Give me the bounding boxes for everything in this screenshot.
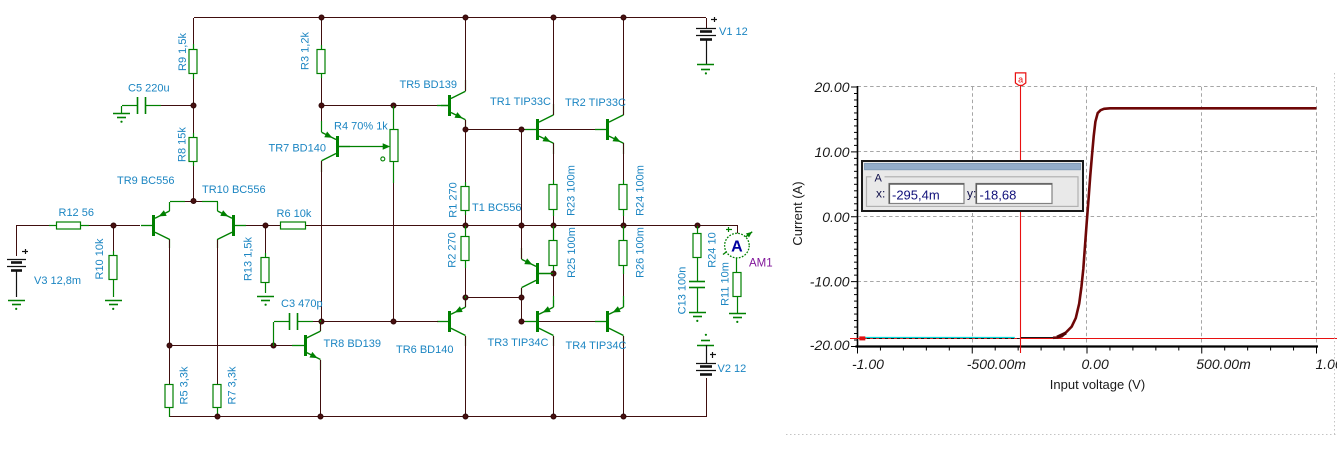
wire R25 to TR3 <box>553 274 555 300</box>
wire T1 emitter up <box>521 226 523 259</box>
window right border <box>1334 73 1336 434</box>
svg-text:10.00: 10.00 <box>814 144 849 160</box>
resistor R10 <box>109 251 117 297</box>
gridline x -0.5 <box>972 87 974 347</box>
junction T1 collector <box>519 295 524 300</box>
ground R11 <box>729 314 746 324</box>
grid right border <box>1316 87 1318 347</box>
transistor TR4 <box>595 296 624 346</box>
label TR10 <box>202 184 266 196</box>
mid rail left <box>16 225 49 227</box>
ground C13 <box>689 313 706 323</box>
y axis <box>857 86 859 348</box>
junction TR5 emitter <box>463 127 468 132</box>
xlabel -500.00m <box>967 356 1026 372</box>
svg-text:y:: y: <box>967 187 976 201</box>
wire TR1 collector <box>553 18 555 115</box>
resistor R5 <box>165 346 173 417</box>
resistor R8 <box>189 133 197 166</box>
junction R10 rail <box>111 223 116 228</box>
junction T1 base node <box>551 271 556 276</box>
junction T1 emitter rail <box>519 223 524 228</box>
label TR4 <box>566 340 627 352</box>
resistor R6 <box>281 222 306 229</box>
svg-text:T1 BC556: T1 BC556 <box>472 202 522 214</box>
svg-text:R9 1,5k: R9 1,5k <box>177 33 189 71</box>
ammeter AM1 <box>725 233 750 258</box>
wire TR2 emitter <box>623 143 625 180</box>
cursor readout box <box>862 161 1083 211</box>
label C13 <box>677 267 689 315</box>
plus V1 <box>711 17 717 22</box>
ylabel 0 <box>822 209 849 225</box>
junction TR3 base node <box>519 319 524 324</box>
svg-text:R7 3,3k: R7 3,3k <box>227 366 239 404</box>
resistor R25 <box>549 226 557 274</box>
capacitor C5 <box>122 97 195 114</box>
svg-text:A: A <box>731 239 743 256</box>
ground R10 <box>105 301 122 311</box>
wire TR8 emitter down <box>320 360 322 417</box>
junction TR4 bottom <box>621 414 626 419</box>
capacitor C3 <box>274 313 323 346</box>
base line TR3 TR4 <box>521 321 596 323</box>
svg-text:1.00: 1.00 <box>1316 356 1337 372</box>
label R8 <box>177 127 189 162</box>
transistor TR5 <box>437 80 466 131</box>
cursor flag a <box>1015 73 1025 86</box>
label R3 <box>300 32 312 70</box>
transistor TR2 <box>595 104 624 154</box>
gridline x 0 <box>1086 87 1088 347</box>
junction emitters <box>191 198 196 203</box>
resistor R23 <box>549 180 557 216</box>
junction R23 rail <box>551 223 556 228</box>
ground V2 inverted <box>697 334 714 346</box>
battery V2 <box>696 364 716 375</box>
svg-text:R13 1,5k: R13 1,5k <box>243 236 255 281</box>
wire TR5 base <box>441 105 448 107</box>
junction TR1 top rail <box>551 15 556 20</box>
label R10 <box>94 238 106 279</box>
label TR9 <box>117 175 174 187</box>
svg-text:TR7 BD140: TR7 BD140 <box>269 143 326 155</box>
top rail <box>194 17 706 19</box>
label TR2 <box>565 97 626 109</box>
transistor TR8 <box>292 320 321 370</box>
label R23 <box>566 165 578 216</box>
junction output node <box>695 223 700 228</box>
ammeter A letter <box>731 239 743 256</box>
svg-text:R12 56: R12 56 <box>59 207 94 219</box>
wire R13 drop <box>265 226 267 253</box>
wiper R4 <box>339 143 390 149</box>
svg-text:TR4 TIP34C: TR4 TIP34C <box>566 340 627 352</box>
junction R7 bottom <box>215 414 220 419</box>
cursor horizontal red <box>850 338 1337 340</box>
potentiometer R4 <box>390 106 398 183</box>
resistor R1 <box>461 182 469 215</box>
battery V1 <box>696 29 716 40</box>
ylabel 20 <box>813 79 849 95</box>
ground V1 <box>697 65 714 75</box>
wire TR10 collector down <box>217 240 219 385</box>
gridline y -10 <box>858 281 1317 283</box>
junction R3 top rail <box>319 15 324 20</box>
svg-text:R24 10: R24 10 <box>707 232 719 267</box>
svg-text:R3 1,2k: R3 1,2k <box>300 32 312 70</box>
svg-text:-20.00: -20.00 <box>810 337 850 353</box>
svg-text:-295,4m: -295,4m <box>892 188 940 203</box>
junction TR9 coll node <box>167 343 172 348</box>
junction R1-R2 rail <box>463 223 468 228</box>
wire TR5 collector up <box>465 18 467 91</box>
svg-text:-10.00: -10.00 <box>810 274 850 290</box>
cursor vertical red <box>1020 86 1022 354</box>
wire TR10 base to R13 node <box>246 225 280 227</box>
label TR7 <box>269 143 326 155</box>
label R13 <box>243 236 255 281</box>
wire y321 mid <box>322 321 438 323</box>
label R24 <box>635 165 647 216</box>
svg-text:TR1 TIP33C: TR1 TIP33C <box>490 96 551 108</box>
wire V3 stem <box>16 226 18 256</box>
svg-text:0.00: 0.00 <box>1082 356 1109 372</box>
label R4 <box>334 121 388 133</box>
junction R24 rail <box>621 223 626 228</box>
label T1 <box>472 202 522 214</box>
wire TR10 emitter path <box>194 201 218 203</box>
wire T1 base <box>538 273 553 275</box>
transistor TR10 <box>218 202 247 248</box>
wire TR4 collector down <box>623 336 625 417</box>
svg-text:TR9 BC556: TR9 BC556 <box>117 175 174 187</box>
x axis title <box>1050 377 1145 392</box>
svg-text:x:: x: <box>876 187 885 201</box>
svg-text:C13 100n: C13 100n <box>677 267 689 315</box>
resistor R7 <box>213 385 221 418</box>
wire R3 bottom <box>321 78 323 106</box>
svg-text:TR2 TIP33C: TR2 TIP33C <box>565 97 626 109</box>
junction TR5 top rail <box>463 15 468 20</box>
ammeter AM1 needle <box>723 232 752 255</box>
wire TR1 emitter <box>553 143 555 180</box>
resistor R2 <box>461 226 469 268</box>
junction R4 top <box>391 103 396 108</box>
wire R8 to emitters node <box>193 166 195 201</box>
resistor R26 <box>619 226 627 274</box>
transistor TR3 <box>525 296 554 346</box>
mid rail right of R6 <box>305 225 738 227</box>
ylabel 10 <box>814 144 849 160</box>
x axis <box>856 345 1319 347</box>
wire TR5 emitter down <box>465 120 467 130</box>
ylabel -20 <box>810 337 850 353</box>
wire R1 top <box>465 130 467 182</box>
wire TR3 collector down <box>553 336 555 417</box>
svg-text:R6 10k: R6 10k <box>277 208 312 220</box>
wire R4 bottom <box>393 183 395 321</box>
resistor R11 <box>733 258 741 313</box>
label V2 <box>718 363 747 375</box>
plus AM1 <box>726 227 732 232</box>
wire R3 top <box>321 18 323 45</box>
resistor R12 <box>49 222 89 229</box>
wire TR3 emitter up <box>553 300 555 307</box>
resistor R3 <box>317 45 325 78</box>
xlabel 0.00 <box>1082 356 1109 372</box>
resistor R24 <box>619 180 627 216</box>
y ticks <box>851 87 858 347</box>
base line TR1 TR2 <box>465 129 595 131</box>
transistor T1 <box>522 248 551 299</box>
curve black dashed <box>861 338 1020 340</box>
curve knee blob <box>1057 333 1066 337</box>
label R5 <box>179 366 191 404</box>
label R7 <box>227 366 239 404</box>
svg-text:R10 10k: R10 10k <box>94 238 106 279</box>
svg-text:C3 470p: C3 470p <box>281 298 323 310</box>
transistor TR7 <box>322 121 351 172</box>
ground C5 <box>113 114 130 123</box>
wire R26 to TR4 <box>623 274 625 300</box>
label R9 <box>177 33 189 71</box>
transistor TR1 <box>525 104 554 154</box>
label R1 <box>448 182 460 217</box>
label C5 <box>128 83 170 95</box>
label V3 <box>34 275 81 287</box>
label TR6 <box>396 344 453 356</box>
y axis title <box>790 181 805 245</box>
svg-text:TR5 BD139: TR5 BD139 <box>400 79 457 91</box>
wire R12 to TR9 base <box>89 225 140 227</box>
label R12 <box>59 207 94 219</box>
plus V2 <box>710 352 716 358</box>
pot circle R4 <box>381 157 385 161</box>
wire TR7 collector down <box>321 161 323 321</box>
wire TR4 emitter up <box>623 300 625 307</box>
xlabel 1.00 <box>1316 356 1337 372</box>
wire TR7 emitter drop <box>321 106 323 130</box>
svg-text:-18,68: -18,68 <box>980 188 1017 203</box>
label AM1 <box>749 258 773 270</box>
wire TR2 collector <box>623 18 625 115</box>
svg-text:R23 100m: R23 100m <box>566 165 578 216</box>
wire R1 bottom <box>465 215 467 226</box>
wire R24 bottom <box>623 216 625 226</box>
svg-text:20.00: 20.00 <box>813 79 849 95</box>
svg-text:TR10 BC556: TR10 BC556 <box>202 184 266 196</box>
wire V3 bottom <box>16 270 18 297</box>
resistor R13 <box>261 253 269 293</box>
gridline x 0.5 <box>1201 87 1203 347</box>
resistor R24b <box>693 226 701 281</box>
svg-text:R11 10m: R11 10m <box>720 262 732 306</box>
junction C5-R8 <box>191 103 196 108</box>
ground R13 <box>257 297 274 306</box>
node row y105 <box>322 105 441 107</box>
svg-text:R5 3,3k: R5 3,3k <box>179 366 191 404</box>
wire T1 riser <box>521 130 523 226</box>
plus V3 <box>22 249 28 254</box>
svg-text:a: a <box>1018 75 1023 85</box>
curve cyan segment <box>861 337 1015 339</box>
battery V3 <box>7 260 26 271</box>
junction C3 drop <box>271 343 276 348</box>
svg-text:C5 220u: C5 220u <box>128 83 170 95</box>
gridline y 0 <box>858 216 1317 218</box>
label V1 <box>719 26 748 38</box>
svg-text:A: A <box>875 173 883 185</box>
svg-text:-500.00m: -500.00m <box>967 356 1026 372</box>
wire TR6 collector down <box>465 336 467 417</box>
wire R2 bottom <box>465 268 467 297</box>
svg-text:R8 15k: R8 15k <box>177 127 189 162</box>
wire R2 node to T1 <box>465 297 521 299</box>
transistor TR6 <box>437 296 466 346</box>
svg-text:V2 12: V2 12 <box>718 363 747 375</box>
label R11 <box>720 262 732 306</box>
grid top border <box>858 86 1317 88</box>
wire TR9 collector down <box>169 240 171 345</box>
junction T1 riser <box>519 127 524 132</box>
svg-text:AM1: AM1 <box>749 258 773 270</box>
label R24b <box>707 232 719 267</box>
svg-text:R25 100m: R25 100m <box>566 227 578 278</box>
wire V2 riser <box>706 378 708 417</box>
label R6 <box>277 208 312 220</box>
label C3 <box>281 298 323 310</box>
junction R13 node <box>263 223 268 228</box>
svg-text:Input voltage (V): Input voltage (V) <box>1050 377 1145 392</box>
junction R3-TR7 <box>319 103 324 108</box>
wire TR9 emitter path <box>170 201 194 203</box>
label TR8 <box>324 338 381 350</box>
wire R23 bottom <box>553 216 555 226</box>
svg-text:-1.00: -1.00 <box>852 356 884 372</box>
wire V1 to ground <box>706 39 708 65</box>
xlabel 500.00m <box>1196 356 1251 372</box>
resistor R9 <box>189 44 197 79</box>
label R26 <box>635 227 647 278</box>
wire T1 col drop <box>521 298 523 321</box>
svg-text:TR3 TIP34C: TR3 TIP34C <box>488 337 549 349</box>
label TR3 <box>488 337 549 349</box>
svg-text:R4 70% 1k: R4 70% 1k <box>334 121 388 133</box>
bottom rail <box>169 416 706 418</box>
wire AM1 drop <box>737 226 739 234</box>
ylabel -10 <box>810 274 850 290</box>
wire V1 drop <box>706 18 708 28</box>
wire V2 top stem <box>706 345 708 363</box>
x ticks <box>858 347 1317 354</box>
svg-text:Current (A): Current (A) <box>790 181 805 245</box>
window bottom border <box>786 434 1337 436</box>
wire R9-C5 node <box>193 79 195 133</box>
junction TR2 top rail <box>621 15 626 20</box>
wire R10 drop <box>113 226 115 251</box>
junction TR8 bottom <box>318 414 323 419</box>
wire T1 collector down <box>521 288 523 298</box>
junction R4-bottom node <box>391 319 396 324</box>
curve black solid <box>1021 337 1056 339</box>
transistor TR9 <box>141 202 170 248</box>
ground V3 <box>8 301 25 311</box>
wire R9 top <box>193 18 195 44</box>
capacitor C13 <box>689 282 705 313</box>
xlabel -1.00 <box>852 356 884 372</box>
svg-text:R24 100m: R24 100m <box>635 165 647 216</box>
wire TR6 emitter up <box>465 298 467 307</box>
gridline y 10 <box>858 151 1317 153</box>
svg-text:TR8 BD139: TR8 BD139 <box>324 338 381 350</box>
junction TR3 bottom <box>551 414 556 419</box>
label R25 <box>566 227 578 278</box>
junction R2-TR6 node <box>463 295 468 300</box>
label TR5 <box>400 79 457 91</box>
svg-text:V3 12,8m: V3 12,8m <box>34 275 81 287</box>
svg-text:500.00m: 500.00m <box>1196 356 1251 372</box>
curve main <box>1053 108 1317 337</box>
svg-text:TR6 BD140: TR6 BD140 <box>396 344 453 356</box>
label TR1 <box>490 96 551 108</box>
svg-text:R2 270: R2 270 <box>447 232 459 267</box>
wire TR8 collector up <box>320 322 322 331</box>
svg-text:0.00: 0.00 <box>822 209 849 225</box>
curve start marker <box>859 336 865 340</box>
svg-text:V1 12: V1 12 <box>719 26 748 38</box>
svg-text:R26 100m: R26 100m <box>635 227 647 278</box>
svg-text:R1 270: R1 270 <box>448 182 460 217</box>
junction C3-TR7 <box>319 319 324 324</box>
junction TR6 bottom <box>463 414 468 419</box>
label R2 <box>447 232 459 267</box>
wire TR8 base line <box>169 345 292 347</box>
